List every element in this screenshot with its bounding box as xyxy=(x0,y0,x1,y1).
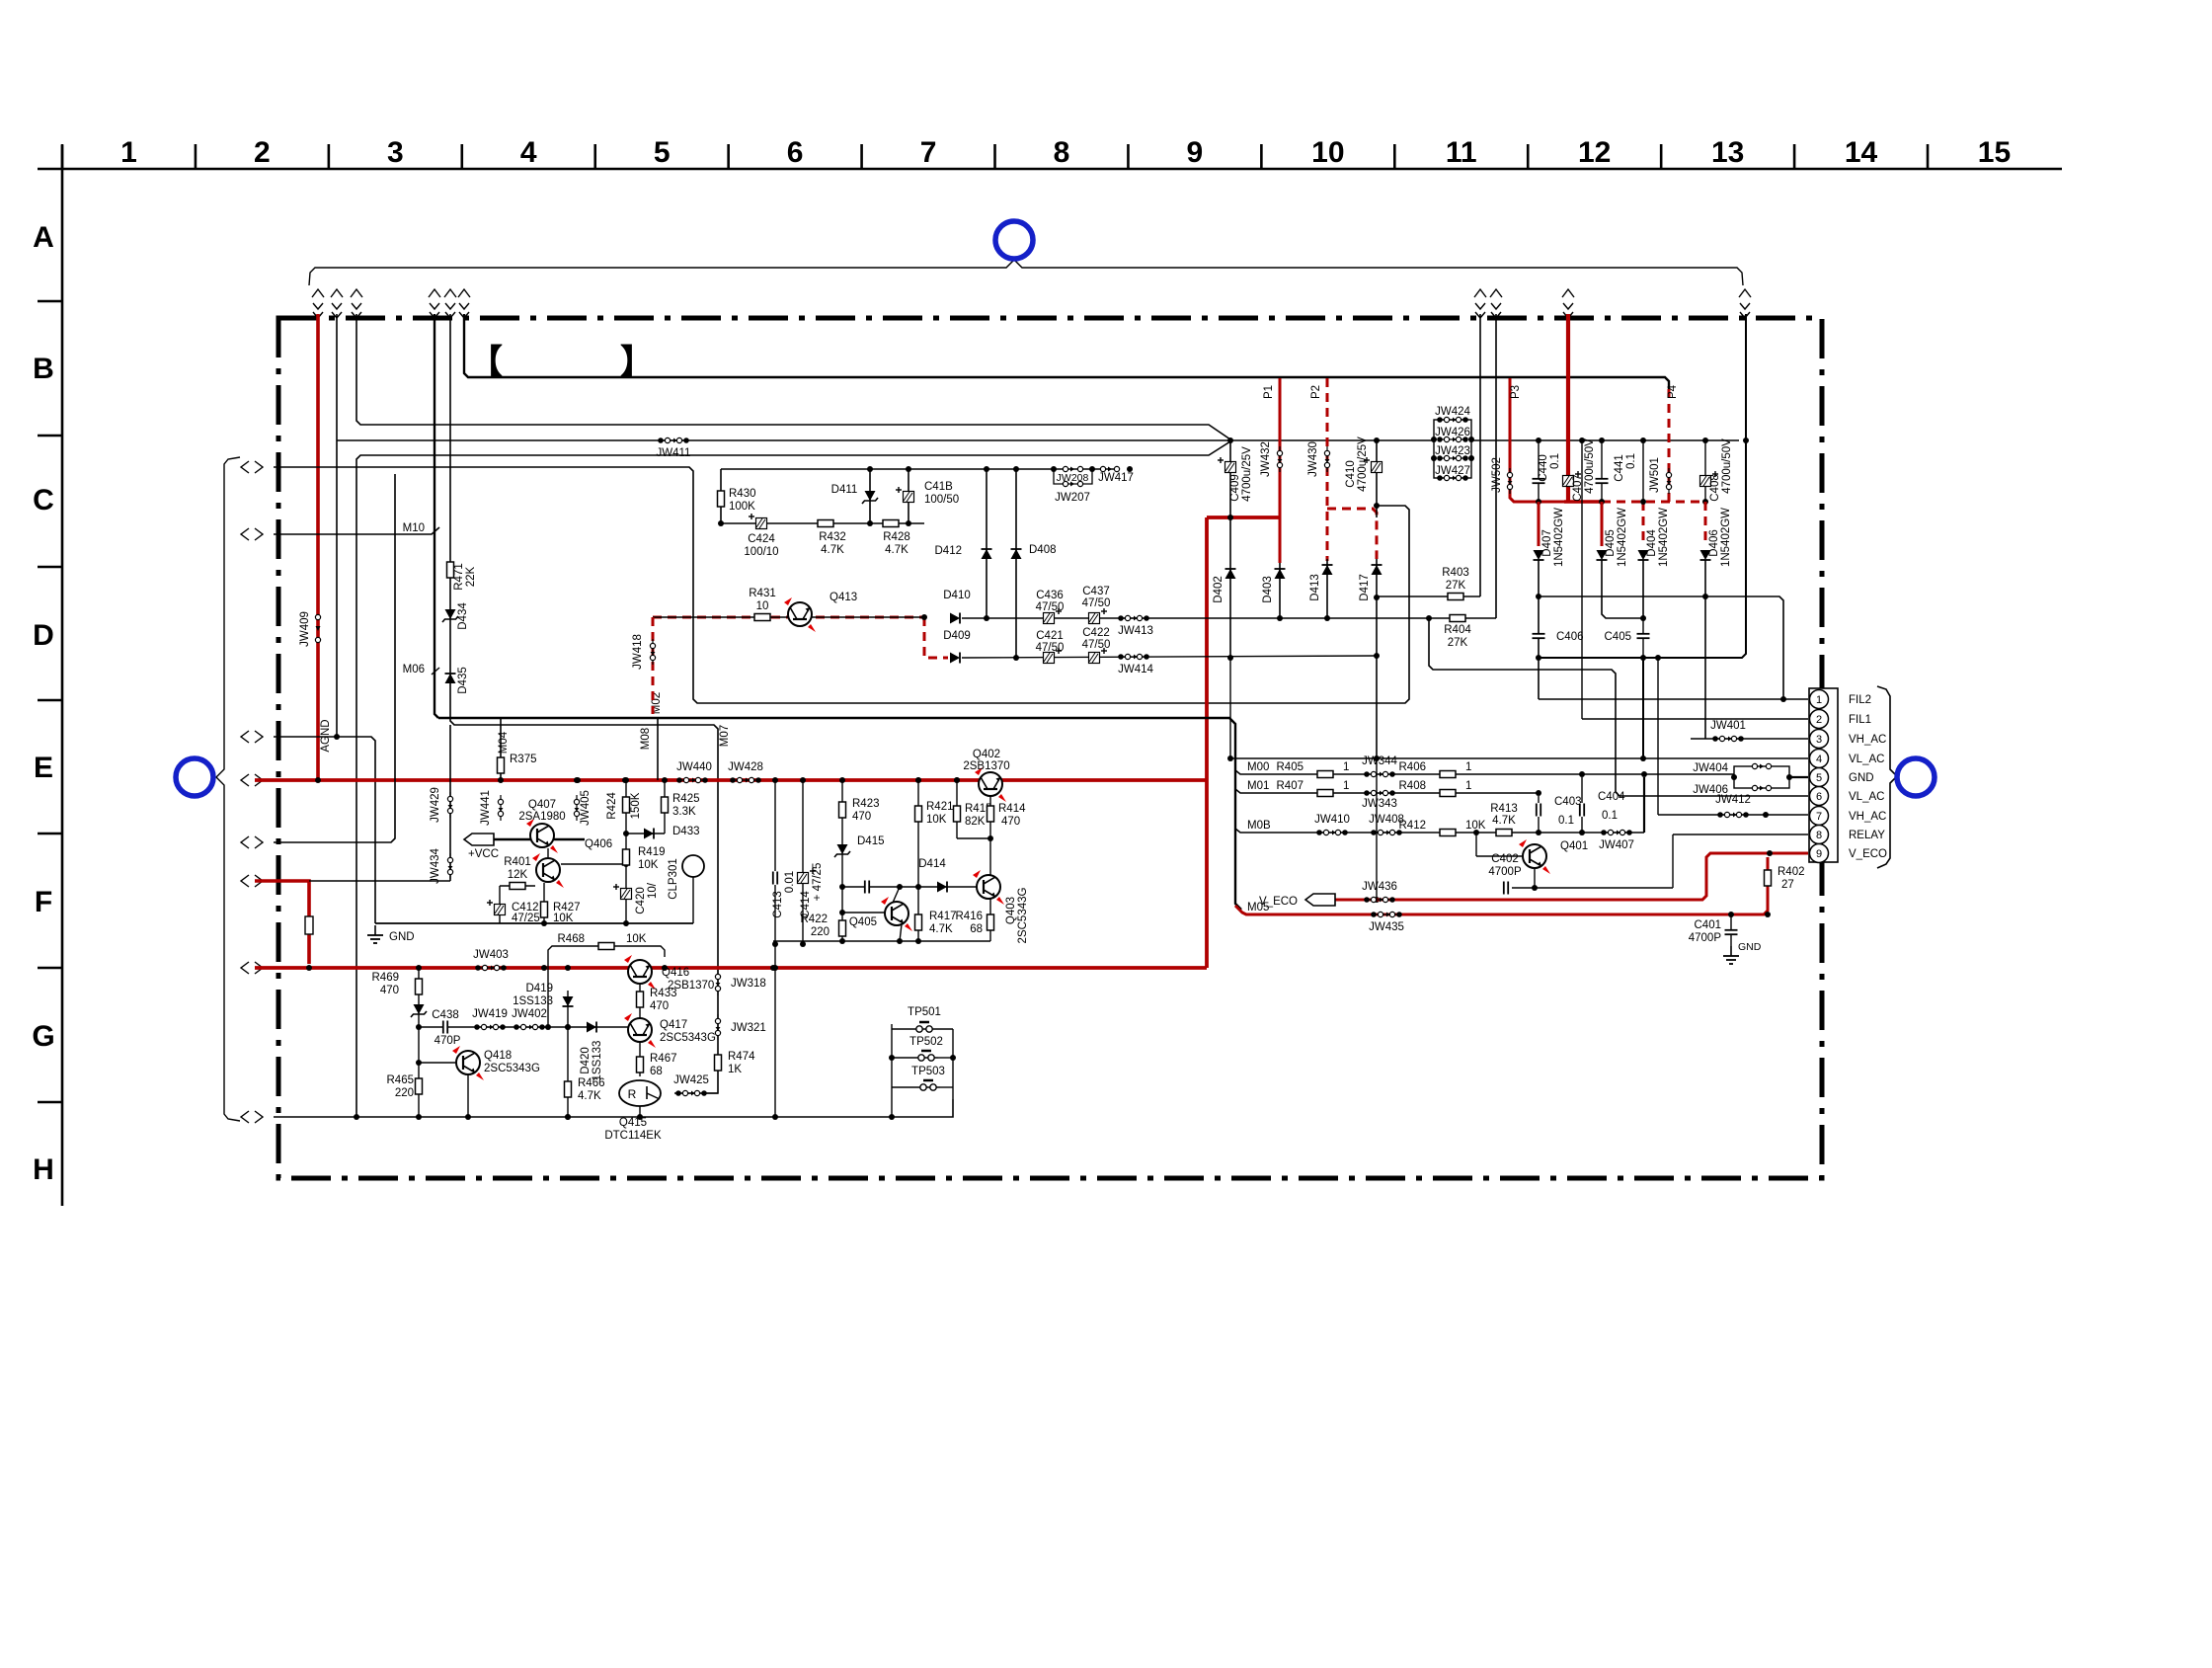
svg-text:C406: C406 xyxy=(1556,631,1584,643)
jumper JW405 xyxy=(576,795,578,821)
wire Q405 legs xyxy=(893,887,900,903)
svg-text:TP503: TP503 xyxy=(911,1066,945,1077)
svg-text:R414: R414 xyxy=(998,803,1026,815)
svg-text:GND: GND xyxy=(1849,772,1874,784)
svg-text:1N5402GW: 1N5402GW xyxy=(1720,508,1732,567)
svg-text:M06: M06 xyxy=(403,664,425,675)
red bus F dots xyxy=(306,965,312,971)
jumper JW403 xyxy=(478,967,504,969)
red F stub xyxy=(255,881,309,964)
red P3 xyxy=(1510,378,1564,502)
jumper JW418 xyxy=(652,639,654,665)
jumper JW402 xyxy=(516,1026,542,1028)
svg-text:6: 6 xyxy=(1816,791,1822,803)
svg-text:220: 220 xyxy=(811,926,829,938)
svg-text:JW428: JW428 xyxy=(728,761,763,773)
resistor R468 xyxy=(598,943,614,950)
svg-text:C440: C440 xyxy=(1538,454,1549,482)
capacitor C401 xyxy=(1730,914,1732,946)
resistor R404 xyxy=(1450,615,1465,622)
svg-text:47/50: 47/50 xyxy=(1082,639,1111,651)
jumper JW419 xyxy=(477,1026,503,1028)
svg-text:JW321: JW321 xyxy=(731,1022,766,1034)
wire mid 626 ext xyxy=(1140,617,1230,619)
wire red riser E xyxy=(316,314,320,780)
pin6 feed xyxy=(1606,795,1808,797)
zener D418 xyxy=(414,1004,425,1014)
svg-text:R432: R432 xyxy=(819,531,846,543)
svg-text:22K: 22K xyxy=(465,566,477,587)
svg-text:D434: D434 xyxy=(457,602,469,630)
red dash D409 branch xyxy=(924,617,948,658)
wire Q415 down xyxy=(639,1106,641,1117)
svg-text:P2: P2 xyxy=(1310,385,1322,399)
svg-text:11: 11 xyxy=(1446,136,1477,169)
red dash Q413 line xyxy=(653,616,924,619)
svg-text:R402: R402 xyxy=(1777,866,1805,878)
resistor R425 xyxy=(664,780,666,834)
capacitor C436 xyxy=(1044,613,1055,624)
pin8 feed xyxy=(1673,834,1808,835)
resistor R431 xyxy=(754,614,770,621)
svg-text:68: 68 xyxy=(970,923,983,935)
wire JW407 hook xyxy=(1429,618,1808,796)
svg-text:10K: 10K xyxy=(626,933,647,945)
svg-text:R431: R431 xyxy=(749,588,776,599)
svg-text:2: 2 xyxy=(1816,714,1822,726)
svg-text:JW410: JW410 xyxy=(1314,814,1350,826)
svg-text:D433: D433 xyxy=(672,826,700,837)
svg-text:H: H xyxy=(33,1153,54,1186)
svg-text:10: 10 xyxy=(1311,136,1344,169)
wire TP outline xyxy=(891,1024,893,1117)
svg-text:R405: R405 xyxy=(1277,761,1304,773)
red riser join xyxy=(1205,517,1209,968)
resistor R415 xyxy=(956,780,958,838)
pin 7 VH_AC xyxy=(1810,807,1829,826)
capacitor C406 xyxy=(1532,633,1545,639)
svg-text:M00: M00 xyxy=(1247,761,1269,773)
svg-text:JW423: JW423 xyxy=(1435,445,1470,457)
capacitor C414 xyxy=(798,873,809,884)
svg-text:Q405: Q405 xyxy=(849,916,877,928)
svg-text:C422: C422 xyxy=(1082,627,1110,639)
svg-text:0.1: 0.1 xyxy=(1602,810,1618,822)
ground GND xyxy=(374,925,376,935)
diode D405 xyxy=(1601,502,1604,546)
capacitor C408 xyxy=(1704,440,1706,502)
svg-text:Q407: Q407 xyxy=(528,799,556,811)
svg-text:R465: R465 xyxy=(387,1074,415,1086)
svg-text:C408: C408 xyxy=(1709,474,1721,502)
wire Q418 emitter xyxy=(467,1075,469,1117)
pin1 feed xyxy=(1539,698,1808,700)
svg-text:JW502: JW502 xyxy=(1491,457,1503,493)
svg-text:Q415: Q415 xyxy=(619,1117,647,1129)
svg-text:2: 2 xyxy=(254,136,271,169)
wire base line xyxy=(542,1026,644,1028)
svg-text:1: 1 xyxy=(1343,780,1349,792)
svg-text:JW411: JW411 xyxy=(657,447,691,459)
jumper JW411 xyxy=(661,439,686,441)
left connector xyxy=(241,962,249,974)
svg-text:4700u/25V: 4700u/25V xyxy=(1241,446,1253,502)
lamp CLP301 xyxy=(682,855,704,877)
svg-text:M08: M08 xyxy=(640,728,652,750)
svg-text:2SA1980: 2SA1980 xyxy=(518,811,565,823)
svg-text:C421: C421 xyxy=(1036,630,1064,642)
svg-text:V_ECO: V_ECO xyxy=(1849,848,1887,860)
svg-text:M01: M01 xyxy=(1247,780,1269,792)
wire cluster bottom xyxy=(773,940,990,942)
svg-text:1K: 1K xyxy=(728,1064,742,1075)
jumper JW417 xyxy=(1100,466,1105,471)
svg-text:C436: C436 xyxy=(1036,590,1064,601)
svg-text:R413: R413 xyxy=(1490,803,1518,815)
jumper JW430 xyxy=(1326,446,1328,472)
ruler grid frame xyxy=(38,168,2062,171)
capacitor C424 xyxy=(756,518,767,529)
svg-text:R416: R416 xyxy=(956,911,984,922)
capacitor C410 xyxy=(1376,440,1378,517)
svg-text:D414: D414 xyxy=(918,858,946,870)
svg-text:7: 7 xyxy=(920,136,937,169)
svg-text:R433: R433 xyxy=(650,988,677,999)
svg-text:C420: C420 xyxy=(635,887,647,914)
svg-text:8: 8 xyxy=(1816,830,1822,841)
svg-text:AGND: AGND xyxy=(320,719,332,752)
svg-text:JW405: JW405 xyxy=(580,790,592,826)
diode D410 xyxy=(950,613,960,624)
jumper JW408 xyxy=(1374,832,1399,834)
svg-text:D408: D408 xyxy=(1029,544,1057,556)
svg-text:4.7K: 4.7K xyxy=(578,1090,601,1102)
svg-text:GND: GND xyxy=(1738,941,1762,953)
wire D-row bus xyxy=(356,441,1230,1118)
svg-text:C437: C437 xyxy=(1082,586,1110,597)
wire R404 riser xyxy=(1495,314,1497,618)
wire C414 drop xyxy=(802,780,804,944)
svg-text:100K: 100K xyxy=(729,501,755,513)
svg-text:6: 6 xyxy=(787,136,804,169)
svg-text:R430: R430 xyxy=(729,488,756,500)
wire JW411 bus xyxy=(337,439,1739,441)
jumper JW401 xyxy=(1715,738,1741,740)
wire gnd rail xyxy=(375,922,693,924)
pin 4 VL_AC xyxy=(1810,750,1829,768)
svg-text:JW409: JW409 xyxy=(299,611,311,647)
svg-text:A: A xyxy=(33,221,54,254)
wire R423 drop xyxy=(841,780,843,941)
resistor R467 xyxy=(639,1043,641,1076)
svg-text:JW402: JW402 xyxy=(512,1008,547,1020)
left brace xyxy=(216,457,240,1121)
svg-text:P4: P4 xyxy=(1667,384,1679,399)
jumper JW207 xyxy=(1063,481,1067,486)
wire F2 black tail xyxy=(309,880,450,882)
resistor R414 xyxy=(989,796,991,876)
svg-text:R468: R468 xyxy=(558,933,586,945)
svg-text:R421: R421 xyxy=(926,801,954,813)
svg-text:4.7K: 4.7K xyxy=(885,544,908,556)
wire R468 branch xyxy=(548,946,665,1027)
left connector xyxy=(241,774,249,786)
wire D410 out xyxy=(962,617,1230,619)
svg-text:47/50: 47/50 xyxy=(1036,601,1065,613)
svg-text:JW440: JW440 xyxy=(676,761,712,773)
resistor R413 xyxy=(1496,830,1512,836)
diode D420 xyxy=(587,1022,596,1033)
border frame dash-dot xyxy=(278,318,1822,1178)
svg-text:R469: R469 xyxy=(372,972,400,984)
jumper pair JW404 JW406 xyxy=(1734,766,1789,788)
svg-text:JW434: JW434 xyxy=(430,848,441,884)
diode D406 xyxy=(1704,502,1707,546)
capacitor C441 xyxy=(1601,440,1603,502)
capacitor C405 xyxy=(1642,618,1644,658)
svg-text:D407: D407 xyxy=(1541,529,1553,557)
svg-text:1: 1 xyxy=(1816,694,1822,706)
svg-text:Q403: Q403 xyxy=(1005,897,1017,924)
jumper JW414 xyxy=(1121,656,1146,658)
svg-text:4: 4 xyxy=(1816,754,1822,765)
resistor R403 xyxy=(1448,594,1463,600)
resistor R430 xyxy=(718,491,725,507)
top entry connector xyxy=(351,289,362,297)
svg-text:R471: R471 xyxy=(453,563,465,591)
svg-text:C409: C409 xyxy=(1229,474,1241,502)
red P1 xyxy=(1279,378,1282,563)
svg-text:4.7K: 4.7K xyxy=(1492,815,1516,827)
red bus dots xyxy=(315,777,321,783)
svg-text:JW419: JW419 xyxy=(472,1008,508,1020)
wire R404 line xyxy=(1230,617,1496,619)
resistor R375 xyxy=(498,757,505,773)
svg-text:Q406: Q406 xyxy=(585,838,612,850)
svg-text:5: 5 xyxy=(654,136,671,169)
wire R403 riser xyxy=(1479,314,1481,596)
diode D402 xyxy=(1225,569,1236,579)
svg-text:R407: R407 xyxy=(1277,780,1304,792)
resistor R465 xyxy=(416,1078,423,1094)
svg-text:C441: C441 xyxy=(1614,454,1625,482)
wire M08L drop xyxy=(657,718,659,780)
jumper JW429 xyxy=(449,792,451,818)
svg-text:3: 3 xyxy=(387,136,404,169)
diode D434 zener xyxy=(445,609,456,619)
wire D420 line xyxy=(567,1027,569,1117)
diode D411 zener xyxy=(869,469,871,523)
capacitor C440 xyxy=(1538,440,1540,502)
svg-text:4700u/50V: 4700u/50V xyxy=(1584,438,1596,494)
jumper JW432 xyxy=(1279,446,1281,472)
svg-text:VL_AC: VL_AC xyxy=(1849,754,1884,765)
diode D412 xyxy=(986,469,987,618)
left connector xyxy=(241,731,249,743)
capacitor C420 xyxy=(621,889,632,900)
red dash bank bus xyxy=(1602,501,1705,504)
svg-text:D402: D402 xyxy=(1213,576,1224,603)
svg-text:CLP301: CLP301 xyxy=(668,858,679,900)
svg-text:8: 8 xyxy=(1054,136,1070,169)
svg-text:D405: D405 xyxy=(1605,529,1617,557)
capacitor C421 xyxy=(1044,653,1055,664)
svg-text:JW207: JW207 xyxy=(1055,492,1090,504)
wire CLP301 drop xyxy=(692,876,694,923)
svg-text:10: 10 xyxy=(756,600,769,612)
resistor R417 xyxy=(917,887,919,941)
capacitor C407 xyxy=(1563,476,1574,487)
diode D404 xyxy=(1642,502,1645,546)
svg-text:47/50: 47/50 xyxy=(1036,642,1065,654)
svg-text:470: 470 xyxy=(1001,816,1020,828)
wire right 661 line xyxy=(1539,314,1746,658)
svg-text:+ 47/25: + 47/25 xyxy=(812,863,824,902)
junction dots block xyxy=(867,520,873,526)
jumper JW407 xyxy=(1604,832,1629,834)
svg-text:GND: GND xyxy=(389,931,415,943)
svg-text:R467: R467 xyxy=(650,1053,677,1065)
wire H bus xyxy=(274,1099,953,1117)
pin 6 VL_AC xyxy=(1810,787,1829,806)
svg-text:D403: D403 xyxy=(1262,576,1274,603)
resistor R407 xyxy=(1317,790,1333,797)
wire F-conn stub xyxy=(274,474,395,842)
resistor R471 xyxy=(447,562,454,578)
wire vertical M feed xyxy=(434,314,438,718)
resistor R424 xyxy=(623,797,630,813)
wire D409 out xyxy=(962,656,1377,658)
svg-text:12: 12 xyxy=(1578,136,1611,169)
resistor R433 xyxy=(639,985,641,1027)
svg-text:JW429: JW429 xyxy=(430,787,441,823)
wire C438 line xyxy=(419,1026,548,1028)
resistor R466 xyxy=(567,1072,569,1081)
svg-text:82K: 82K xyxy=(965,816,986,828)
svg-text:JW413: JW413 xyxy=(1118,625,1153,637)
resistor R412 xyxy=(1440,830,1456,836)
svg-text:D413: D413 xyxy=(1309,574,1321,601)
red bus F xyxy=(255,966,1207,970)
svg-text:4700P: 4700P xyxy=(1689,932,1722,944)
top brace xyxy=(309,260,1743,285)
resistor R432 xyxy=(818,520,833,527)
svg-text:JW403: JW403 xyxy=(473,949,509,961)
jumper JW436 xyxy=(1367,899,1392,901)
resistor R416 xyxy=(989,899,991,941)
svg-text:3: 3 xyxy=(1816,734,1822,746)
diode D403 xyxy=(1279,563,1281,618)
blue ring top xyxy=(995,221,1033,259)
transistor Q415 xyxy=(619,1080,661,1106)
svg-text:JW424: JW424 xyxy=(1435,406,1470,418)
svg-text:JW318: JW318 xyxy=(731,978,766,990)
svg-text:Q417: Q417 xyxy=(660,1019,687,1031)
jumper JW440 xyxy=(679,779,705,781)
svg-text:D412: D412 xyxy=(935,545,963,557)
left connector xyxy=(241,836,249,848)
blue ring left xyxy=(176,758,213,796)
svg-text:3.3K: 3.3K xyxy=(672,806,696,818)
svg-text:M0B: M0B xyxy=(1247,820,1271,832)
right brace xyxy=(1877,686,1897,868)
diode D435 xyxy=(445,674,456,683)
red dash P2 xyxy=(1326,378,1329,561)
svg-text:M07: M07 xyxy=(719,725,731,747)
resistor R401 xyxy=(510,883,525,890)
svg-text:C424: C424 xyxy=(748,533,775,545)
wire C-conn bus xyxy=(274,467,1409,703)
red bank bus xyxy=(1564,500,1602,504)
svg-text:R401: R401 xyxy=(504,856,531,868)
svg-text:4700u/25V: 4700u/25V xyxy=(1357,437,1369,492)
wire JW429 JW434 riser xyxy=(449,725,451,881)
svg-text:10K: 10K xyxy=(553,913,574,924)
thick M line xyxy=(438,718,1241,910)
resistor R406 xyxy=(1440,771,1456,778)
transistor Q407 xyxy=(530,824,554,847)
wire M04 drop xyxy=(500,718,502,780)
jumper JW502 xyxy=(1509,468,1511,494)
red bus E xyxy=(255,778,1207,782)
red dash P4 xyxy=(1668,389,1671,502)
capacitor C409 xyxy=(1229,440,1231,658)
capacitor C404 xyxy=(1581,777,1583,833)
svg-text:2SC5343G: 2SC5343G xyxy=(660,1032,716,1044)
svg-text:C413: C413 xyxy=(772,891,784,918)
svg-text:JW406: JW406 xyxy=(1693,784,1728,796)
capacitor C422 xyxy=(1089,653,1100,664)
wire relay loop xyxy=(1512,887,1673,889)
svg-text:1N5402GW: 1N5402GW xyxy=(1617,508,1628,567)
wire M01 line xyxy=(1235,789,1539,793)
svg-text:DTC114EK: DTC114EK xyxy=(604,1130,662,1142)
transistor Q417 xyxy=(628,1018,652,1042)
svg-text:C405: C405 xyxy=(1605,631,1632,643)
jumper JW435 xyxy=(1374,913,1399,915)
svg-text:Q401: Q401 xyxy=(1560,840,1588,852)
diode D417 xyxy=(1376,559,1378,758)
transistor Q401 xyxy=(1475,833,1477,856)
svg-text:R: R xyxy=(628,1087,637,1101)
resistor R427 xyxy=(543,883,545,923)
svg-text:JW343: JW343 xyxy=(1362,798,1397,810)
svg-text:D406: D406 xyxy=(1708,529,1720,557)
top entry connector xyxy=(429,289,440,297)
svg-text:D435: D435 xyxy=(457,667,469,694)
jumper JW343 xyxy=(1367,792,1392,794)
svg-text:F: F xyxy=(35,886,52,918)
wire C413 drop xyxy=(774,780,776,1117)
resistor R408 xyxy=(1440,790,1456,797)
resistor R405 xyxy=(1317,771,1333,778)
svg-text:R403: R403 xyxy=(1442,567,1469,579)
svg-text:M04: M04 xyxy=(498,731,510,754)
svg-text:+VCC: +VCC xyxy=(468,848,499,860)
svg-text:FIL1: FIL1 xyxy=(1849,714,1871,726)
transistor Q402 xyxy=(979,772,1002,796)
svg-text:2SB1370: 2SB1370 xyxy=(963,760,1009,772)
wire block top xyxy=(721,468,1114,470)
svg-text:C: C xyxy=(33,484,54,516)
svg-text:5: 5 xyxy=(1816,772,1822,784)
svg-text:【: 【 xyxy=(469,344,503,381)
svg-text:R412: R412 xyxy=(1399,820,1427,832)
diode D433 xyxy=(626,833,665,834)
svg-text:D409: D409 xyxy=(943,630,971,642)
wire H dots xyxy=(354,1114,359,1120)
svg-text:JW501: JW501 xyxy=(1649,457,1661,493)
